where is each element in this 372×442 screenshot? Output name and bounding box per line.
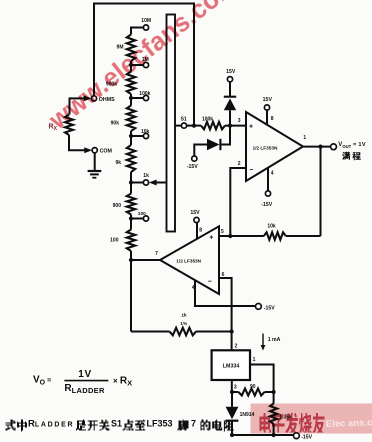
pin 5 wire [219, 235, 230, 237]
svg-text:15V: 15V [190, 210, 200, 216]
terminal OHMS [70, 97, 85, 99]
node: junction 1k/pin6 [230, 329, 234, 333]
wire [219, 139, 221, 150]
pin 4 to -15V [194, 280, 256, 306]
svg-text:15V: 15V [263, 97, 273, 103]
wire [273, 424, 275, 435]
node: 90/pin1 junction [272, 390, 276, 394]
wire [90, 173, 99, 175]
svg-text:10k: 10k [141, 129, 150, 135]
svg-text:−: − [249, 167, 253, 174]
node: bottom rail right [272, 433, 276, 437]
current label 1 mA [262, 334, 264, 347]
resistor 9k [127, 145, 135, 172]
svg-text:1%: 1% [180, 321, 188, 327]
svg-text:4: 4 [271, 171, 274, 177]
wire [68, 135, 70, 150]
wire: bottom rail to -15V [232, 434, 294, 436]
svg-text:VO =: VO = [33, 375, 51, 387]
svg-text:−: − [208, 278, 212, 285]
pin 8 to +15V [266, 110, 268, 125]
pin 8 to +15V [196, 223, 198, 239]
wire [131, 135, 143, 137]
svg-text:× RX: × RX [113, 375, 132, 387]
svg-text:-15V: -15V [301, 435, 312, 441]
svg-text:1 mA: 1 mA [268, 337, 281, 343]
terminal -15V (clamp) [192, 156, 197, 161]
wire [130, 251, 132, 260]
wire [92, 177, 96, 179]
svg-text:15V: 15V [226, 69, 236, 75]
svg-text:-15V: -15V [264, 306, 275, 312]
resistor 900k [127, 72, 135, 95]
wire: left vertical rail to OHMS terminal [93, 3, 95, 96]
svg-text:2: 2 [238, 161, 241, 167]
wire [226, 420, 239, 422]
pin 1 wire [250, 365, 274, 393]
wire: feedback node up to pin 2 [230, 168, 246, 236]
wire [230, 235, 263, 237]
wire [194, 145, 207, 157]
svg-text:S1: S1 [111, 419, 122, 429]
diode clamp to -15V [221, 126, 231, 145]
resistor 90 [232, 391, 239, 393]
svg-text:90k: 90k [111, 120, 120, 126]
node / switch contact 1M [129, 63, 133, 67]
svg-text:100: 100 [138, 211, 146, 217]
wire [229, 82, 231, 97]
resistor 90k [127, 106, 135, 132]
diode 1N914 [231, 392, 233, 407]
terminal VOUT [331, 144, 337, 150]
node: output [318, 145, 322, 149]
svg-text:8: 8 [199, 227, 202, 233]
svg-text:7: 7 [155, 251, 158, 257]
terminal COM [68, 149, 85, 151]
svg-text:-15V: -15V [261, 202, 272, 208]
pin 4 to -15V [267, 168, 269, 191]
wire [130, 131, 132, 145]
wire: right vertical rail down to S1 junction [193, 3, 195, 126]
output pin 7 wire to ladder bottom [130, 259, 160, 261]
ground [94, 153, 96, 171]
svg-text:RLADDER: RLADDER [64, 383, 105, 395]
svg-text:1k: 1k [181, 313, 187, 319]
caption: formula explanation (Chinese) [6, 420, 28, 432]
wire: ladder bottom down [130, 260, 132, 332]
svg-text:6: 6 [222, 272, 225, 278]
wire [131, 64, 143, 66]
svg-text:1: 1 [303, 135, 306, 141]
watermark band bottom right [251, 404, 372, 434]
svg-text:S1: S1 [181, 117, 187, 123]
svg-text:90: 90 [250, 384, 256, 390]
svg-text:100k: 100k [139, 91, 150, 97]
node / switch contact 100k [129, 96, 133, 100]
switch S1 wiper bar [167, 15, 176, 232]
node / switch contact 100 [129, 216, 133, 220]
node: pin3/90 junction [230, 390, 234, 394]
node: op-amp pin3 input node [228, 124, 232, 128]
resistor 9M [127, 35, 135, 62]
watermark 电子发烧友 [260, 413, 325, 433]
svg-text:8: 8 [271, 116, 274, 122]
op-amp U1A 1/2 LF353N [246, 112, 303, 181]
wire [130, 61, 132, 72]
node / switch contact 1k (selected) [129, 180, 133, 184]
wire: VOUT node down [320, 147, 322, 236]
node: bottom rail left [230, 433, 234, 437]
svg-text:100: 100 [110, 238, 119, 244]
svg-text:3: 3 [234, 384, 237, 390]
terminal S1 [175, 125, 181, 127]
wire [224, 96, 236, 98]
svg-text:9M: 9M [117, 44, 124, 50]
resistor 1k 1% [131, 331, 170, 333]
output pin 1 wire [303, 146, 331, 148]
svg-text:1: 1 [253, 357, 256, 363]
node / switch contact 10k [129, 134, 133, 138]
svg-text:LF353: LF353 [147, 419, 173, 429]
svg-text:2: 2 [235, 343, 238, 349]
wire [196, 331, 232, 333]
wire [131, 218, 143, 220]
wire: top rail OHMS to S1 [94, 3, 194, 5]
svg-text:1k: 1k [143, 173, 149, 179]
svg-text:4: 4 [192, 285, 195, 291]
pin 6 wire to LM334 [219, 278, 232, 350]
svg-text:5: 5 [221, 229, 224, 235]
wire [130, 172, 132, 194]
node: feedback node [228, 234, 232, 238]
switch wiper arrow to 1k tap [157, 182, 167, 184]
svg-text:3: 3 [238, 118, 241, 124]
wire [265, 391, 274, 393]
svg-text:RLADDER: RLADDER [28, 419, 74, 430]
diode clamp to +15V [229, 110, 231, 125]
svg-text:VOUT = 1V: VOUT = 1V [338, 142, 366, 149]
resistor 1.35k [273, 392, 275, 404]
wire [130, 215, 132, 230]
svg-text:+: + [209, 235, 213, 242]
svg-text:9k: 9k [115, 160, 121, 166]
wire [225, 125, 246, 127]
resistor RX [69, 98, 71, 115]
resistor 100k [194, 125, 201, 127]
node: ladder bottom / pin7 [129, 258, 133, 262]
svg-text:LM334: LM334 [223, 363, 240, 369]
svg-text:7: 7 [191, 419, 196, 429]
op-amp U1B 1/2 LF353N [160, 226, 219, 294]
svg-text:COM: COM [100, 149, 113, 155]
wire [88, 170, 102, 172]
svg-text:10k: 10k [267, 223, 276, 229]
wire [231, 421, 233, 435]
svg-text:+: + [249, 124, 253, 131]
svg-text:1V: 1V [78, 369, 91, 380]
label full-scale (Chinese) [342, 152, 361, 161]
svg-text:1/2 LF353N: 1/2 LF353N [253, 145, 278, 150]
wire [64, 380, 108, 382]
svg-text:-15V: -15V [187, 164, 198, 170]
node: S1 junction with top rail [187, 125, 196, 127]
switch contact 10M [143, 25, 148, 30]
resistor 900 [127, 194, 135, 215]
svg-text:10M: 10M [141, 18, 151, 24]
wire: ladder top to 10M contact [131, 28, 143, 35]
pin 3 wire [231, 380, 233, 392]
terminal +15V (clamp) [227, 77, 232, 82]
svg-text:100k: 100k [202, 117, 213, 123]
resistor 10k (feedback) [286, 235, 321, 237]
resistor 100 (bottom of ladder) [127, 230, 135, 252]
wire [131, 182, 143, 184]
svg-text:Elec ans.co: Elec ans.co [326, 417, 372, 430]
svg-text:900: 900 [113, 203, 122, 209]
wire [130, 94, 132, 106]
wire [131, 97, 143, 99]
LM334 [212, 350, 250, 380]
svg-text:1/2 LF353N: 1/2 LF353N [176, 258, 201, 263]
